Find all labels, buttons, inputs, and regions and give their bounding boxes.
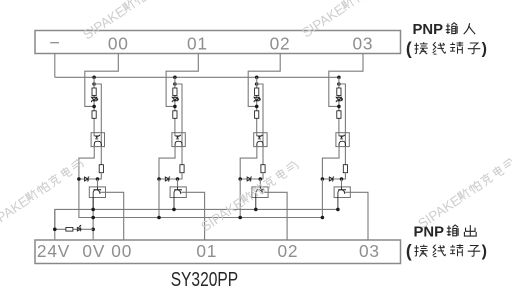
LED D-pwr (power indicator) xyxy=(77,225,81,232)
wire: branch node to R03 channel 0 xyxy=(94,84,101,165)
resistor R12 xyxy=(173,111,177,119)
wire: row left channel 2 to bus B xyxy=(239,179,241,218)
junction: row left node channel 0 xyxy=(77,177,81,181)
wire: branch node to R33 channel 3 xyxy=(339,84,346,165)
phototransistor of U0 xyxy=(94,141,101,146)
transistor Q1 xyxy=(170,187,186,210)
watermark center xyxy=(198,158,301,234)
wire: branch node to R13 channel 1 xyxy=(175,84,182,165)
transistor Q0 xyxy=(89,187,105,210)
label PNP output subtitle (terminals) xyxy=(406,241,487,261)
wire: chain vertical channel 3 xyxy=(338,77,340,136)
resistor R31 xyxy=(337,88,341,96)
resistor R-pwr (power indicator) xyxy=(66,228,73,232)
junction: Q1 emitter on bus A xyxy=(172,208,176,212)
wire: collector of Q1 to bottom terminal 01 xyxy=(182,192,205,240)
svg-text:SY320PP: SY320PP xyxy=(171,269,238,291)
junction: channel 2 bypass join xyxy=(255,105,259,109)
LED D01 (input indicator) xyxy=(92,97,99,102)
junction: channel 3 branch node xyxy=(337,82,341,86)
transistor Q3 xyxy=(334,187,350,210)
resistor R32 xyxy=(337,111,341,119)
label - (minus terminal) xyxy=(50,42,59,44)
junction: row left node channel 1 xyxy=(157,177,161,181)
junction: 0V vertical on LED row xyxy=(91,228,95,232)
resistor R01 xyxy=(92,88,96,96)
wire: row under channel 1 xyxy=(159,173,182,179)
watermark top-right xyxy=(299,0,402,40)
wire: input terminal 01 drop to channel 1 xyxy=(166,54,198,107)
junction: 24V corner on LED row xyxy=(53,228,57,232)
wire: chain vertical channel 2 xyxy=(256,77,258,136)
svg-text:): ) xyxy=(482,243,487,260)
zener diode Z3 xyxy=(329,177,334,181)
junction: channel 0 bypass join xyxy=(92,105,96,109)
svg-text:): ) xyxy=(482,41,487,58)
resistor R23 xyxy=(261,165,265,173)
junction: channel 1 on bus B xyxy=(157,216,161,220)
svg-text:02: 02 xyxy=(277,241,298,261)
junction: channel 3 bypass join xyxy=(337,105,341,109)
svg-text:(: ( xyxy=(406,38,412,58)
wire: row left channel 3 to bus B xyxy=(321,179,323,218)
resistor R21 xyxy=(255,88,259,96)
label PNP output title xyxy=(414,223,477,240)
junction: row left node channel 2 xyxy=(238,177,242,181)
junction: Q0 emitter on bus A xyxy=(91,208,95,212)
wire: chain vertical channel 1 xyxy=(174,77,176,136)
wire: collector of Q3 to bottom terminal 03 xyxy=(346,192,368,240)
wire: row under channel 3 xyxy=(322,173,345,179)
resistor R11 xyxy=(173,88,177,96)
svg-text:01: 01 xyxy=(196,241,217,261)
label PNP input subtitle (terminals) xyxy=(406,38,487,58)
junction: row right node channel 0 xyxy=(96,177,100,181)
watermark right xyxy=(415,155,512,231)
wire: emitter of U2 to row channel 2 xyxy=(240,146,257,179)
junction: row left node channel 3 xyxy=(321,177,325,181)
junction: channel 1 on - bus xyxy=(173,76,177,80)
optocoupler U3 xyxy=(336,133,349,147)
junction: channel 3 on bus B xyxy=(321,216,325,220)
svg-text:00: 00 xyxy=(108,33,129,53)
optocoupler U1 xyxy=(172,133,185,147)
wire: row to base of Q2 xyxy=(259,179,261,187)
wire: input terminal 03 drop to channel 3 xyxy=(329,54,363,107)
junction: Q2 emitter on bus A xyxy=(254,208,258,212)
optocoupler U0 xyxy=(91,133,104,147)
wire: - bus (common) xyxy=(55,76,339,78)
junction: channel 3 on - bus xyxy=(337,76,341,80)
junction: row right node channel 2 xyxy=(259,177,263,181)
junction: channel 1 bypass join xyxy=(173,105,177,109)
svg-text:(: ( xyxy=(406,241,412,261)
wire: emitter of U0 to row channel 0 xyxy=(79,146,94,179)
junction: channel 1 branch node xyxy=(173,82,177,86)
wire: bus B (emitter return) xyxy=(79,179,323,218)
wire: branch node to R23 channel 2 xyxy=(257,84,263,165)
zener diode Z0 xyxy=(85,177,90,181)
label PNP input title xyxy=(413,21,476,38)
junction: Q3 emitter on bus A xyxy=(336,208,340,212)
resistor R03 xyxy=(99,165,103,173)
wire: input terminal 00 drop to channel 0 xyxy=(85,54,119,107)
zener diode Z1 xyxy=(165,177,170,181)
bottom terminal box (PNP output) xyxy=(35,240,401,264)
watermark left xyxy=(0,156,86,232)
resistor R13 xyxy=(180,165,184,173)
junction: channel 2 on bus B xyxy=(238,216,242,220)
wire: minus terminal to - bus xyxy=(54,54,56,78)
LED D21 (input indicator) xyxy=(254,97,261,102)
wire: input terminal 02 drop to channel 2 xyxy=(248,54,280,107)
junction: row right node channel 3 xyxy=(340,177,344,181)
phototransistor of U3 xyxy=(339,141,345,146)
LED D31 (input indicator) xyxy=(336,97,343,102)
svg-text:03: 03 xyxy=(359,241,380,261)
zener diode Z2 xyxy=(247,177,252,181)
wire: row to base of Q0 xyxy=(97,179,99,187)
resistor R02 xyxy=(92,111,96,119)
wire: collector of Q0 to bottom terminal 00 xyxy=(101,192,124,240)
wire: row under channel 2 xyxy=(240,173,263,179)
watermark top-left xyxy=(80,0,183,42)
wire: row under channel 0 xyxy=(79,173,101,179)
svg-text:01: 01 xyxy=(187,33,208,53)
svg-text:03: 03 xyxy=(352,33,373,53)
LED D11 (input indicator) xyxy=(172,97,179,102)
optocoupler U2 xyxy=(254,133,267,147)
top terminal box (PNP input) xyxy=(35,31,401,54)
wire: row left channel 1 to bus B xyxy=(158,179,160,218)
svg-text:0V: 0V xyxy=(82,241,105,261)
svg-text:PNP: PNP xyxy=(413,21,444,38)
wire: LED indicator row xyxy=(55,209,93,229)
phototransistor of U2 xyxy=(257,141,263,146)
junction: channel 0 on - bus xyxy=(92,76,96,80)
svg-text:24V: 24V xyxy=(37,241,70,261)
svg-text:00: 00 xyxy=(111,241,132,261)
junction: 0V vertical on bus B xyxy=(91,216,95,220)
resistor R22 xyxy=(255,111,259,119)
wire: 0V vertical xyxy=(92,198,94,241)
wire: emitter of U3 to row channel 3 xyxy=(322,146,339,179)
junction: channel 0 branch node xyxy=(92,82,96,86)
wire: chain vertical channel 0 xyxy=(93,77,95,136)
wire: collector of Q2 to bottom terminal 02 xyxy=(264,192,287,240)
wire: 24V bus A xyxy=(55,209,338,240)
wire: row to base of Q1 xyxy=(177,179,179,187)
transistor Q2 xyxy=(252,187,268,210)
resistor R33 xyxy=(343,165,347,173)
svg-text:02: 02 xyxy=(270,33,291,53)
phototransistor of U1 xyxy=(175,141,182,146)
junction: channel 2 branch node xyxy=(255,82,259,86)
junction: channel 2 on - bus xyxy=(255,76,259,80)
junction: row right node channel 1 xyxy=(176,177,180,181)
wire: emitter of U1 to row channel 1 xyxy=(159,146,175,179)
wire: row to base of Q3 xyxy=(341,179,343,187)
